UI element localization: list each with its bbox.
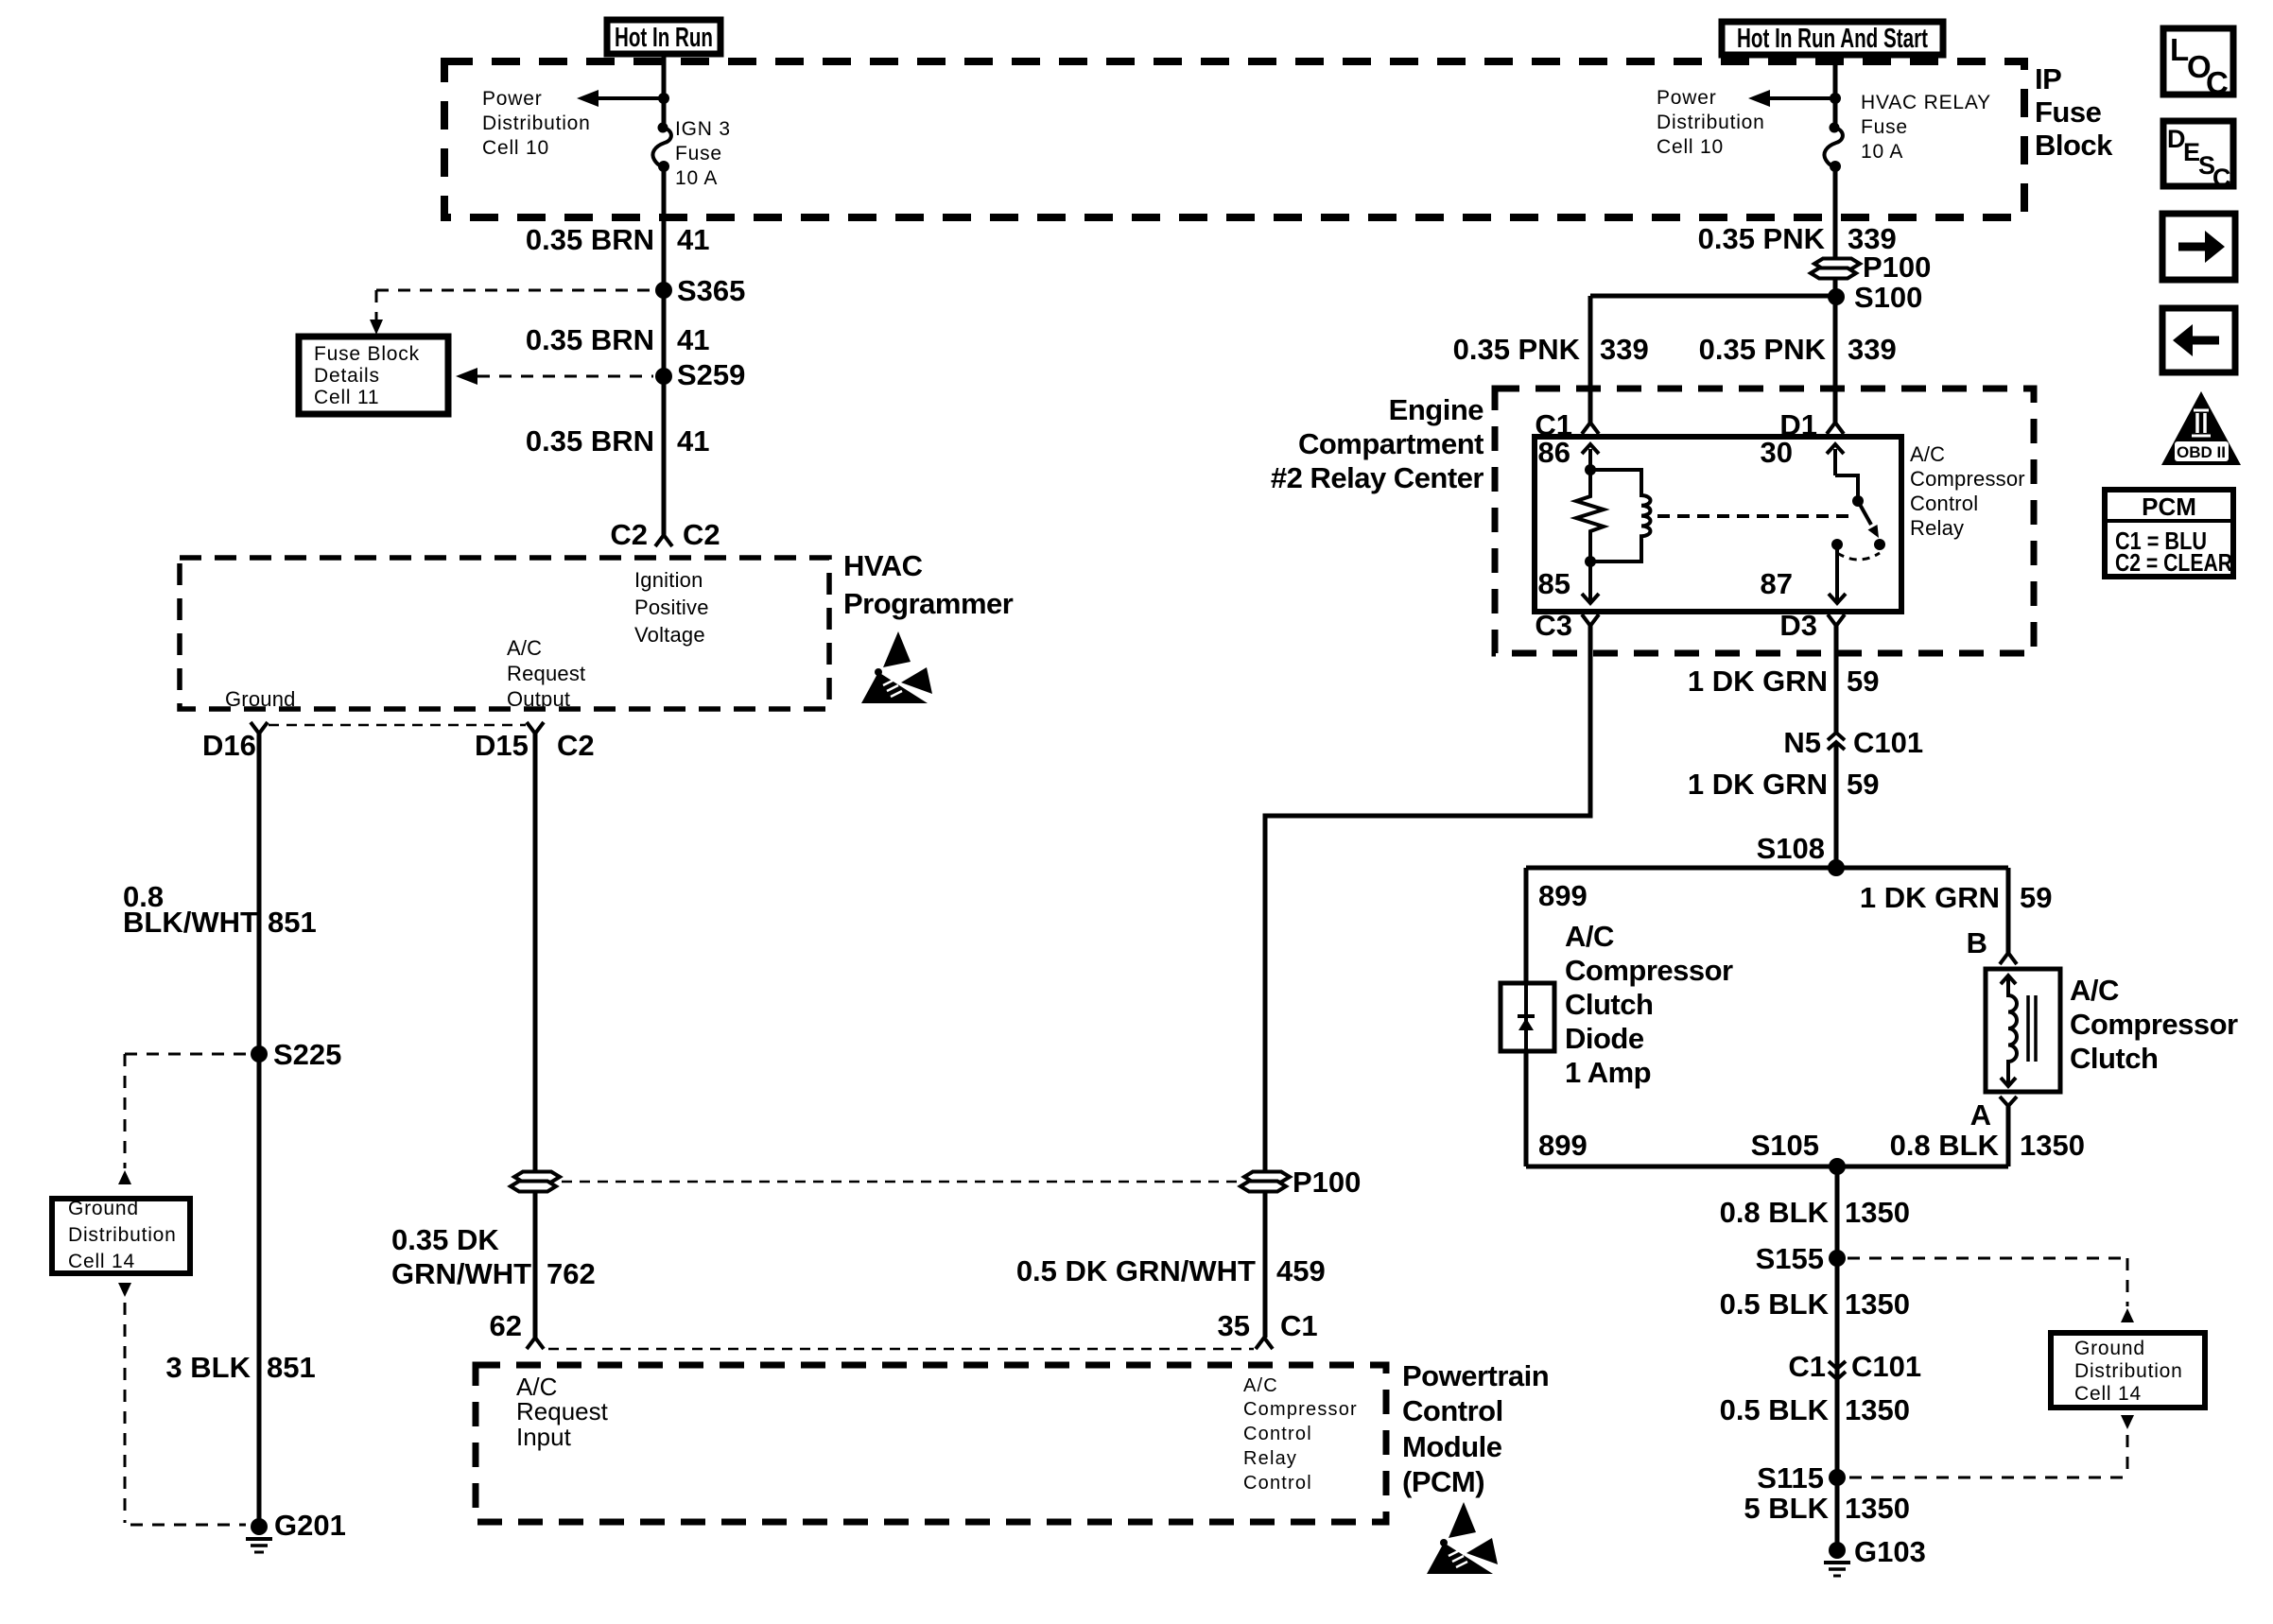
svg-text:86: 86 bbox=[1538, 436, 1570, 469]
svg-text:Diode: Diode bbox=[1565, 1022, 1644, 1055]
connector pin B at clutch bbox=[1967, 926, 2017, 964]
svg-text:Output: Output bbox=[507, 687, 570, 711]
PCM connector legend box bbox=[2105, 490, 2233, 577]
wire label 0.35 DK GRN/WHT 762 bbox=[391, 1223, 596, 1290]
connector pin D3 at relay bbox=[1779, 609, 1845, 642]
connector pin 62 at PCM bbox=[490, 1309, 544, 1349]
svg-text:Relay: Relay bbox=[1243, 1448, 1297, 1469]
svg-text:B: B bbox=[1967, 926, 1987, 959]
svg-text:Cell 14: Cell 14 bbox=[2074, 1383, 2142, 1405]
svg-text:S105: S105 bbox=[1751, 1129, 1819, 1162]
svg-text:Module: Module bbox=[1402, 1430, 1502, 1463]
dashed ground net inside HVAC box bbox=[269, 724, 526, 727]
wire: P100 to pin 35 bbox=[1263, 1192, 1268, 1338]
wire: fuse to C2 connector (0.35 BRN 41) bbox=[662, 166, 667, 535]
svg-text:Cell 10: Cell 10 bbox=[482, 137, 549, 159]
svg-text:C2: C2 bbox=[610, 518, 648, 551]
wire label 3 BLK 851 bbox=[165, 1351, 315, 1384]
wire: S108 top rail (899 circuit) bbox=[1526, 866, 2008, 871]
svg-text:1350: 1350 bbox=[1845, 1393, 1910, 1426]
wire: clutch A to S105 rail bbox=[2006, 1106, 2011, 1166]
svg-text:1350: 1350 bbox=[1845, 1287, 1910, 1321]
svg-text:C2 = CLEAR: C2 = CLEAR bbox=[2115, 548, 2232, 577]
svg-text:0.8 BLK: 0.8 BLK bbox=[1720, 1196, 1830, 1229]
wire label 0.35 PNK 339 (left pair) bbox=[1453, 333, 1649, 366]
svg-text:30: 30 bbox=[1761, 436, 1793, 469]
dashed reference from S155 to Ground Distribution (right) bbox=[1848, 1258, 2134, 1322]
svg-text:1 Amp: 1 Amp bbox=[1565, 1056, 1651, 1089]
wire label 0.8 BLK/WHT 851 bbox=[123, 880, 317, 939]
svg-text:Cell 11: Cell 11 bbox=[314, 387, 379, 408]
svg-text:A/C: A/C bbox=[1910, 442, 1945, 466]
relay pin 87 arrow bbox=[1761, 544, 1846, 603]
svg-text:62: 62 bbox=[490, 1309, 522, 1342]
svg-text:Hot In Run And Start: Hot In Run And Start bbox=[1737, 24, 1928, 54]
svg-text:Block: Block bbox=[2035, 129, 2113, 162]
svg-text:10 A: 10 A bbox=[1861, 141, 1903, 163]
svg-text:S100: S100 bbox=[1854, 281, 1922, 314]
svg-text:Voltage: Voltage bbox=[634, 623, 705, 647]
svg-text:D16: D16 bbox=[202, 729, 256, 762]
splice S115 bbox=[1757, 1461, 1846, 1494]
label: A/C Request Input bbox=[516, 1373, 609, 1451]
node label box: Hot In Run bbox=[607, 20, 720, 54]
svg-text:41: 41 bbox=[677, 424, 709, 458]
svg-text:0.5 DK GRN/WHT: 0.5 DK GRN/WHT bbox=[1016, 1254, 1256, 1287]
connector pin 35 C1 at PCM bbox=[1218, 1309, 1318, 1349]
dashed pass-through line between P100 connectors bbox=[562, 1181, 1239, 1183]
label: A/C Compressor Clutch Diode 1 Amp bbox=[1565, 920, 1733, 1089]
PCM dashed box bbox=[476, 1365, 1386, 1522]
label: A/C Compressor Control Relay Control bbox=[1243, 1375, 1358, 1494]
svg-text:339: 339 bbox=[1848, 333, 1897, 366]
svg-text:87: 87 bbox=[1761, 567, 1793, 600]
connector pin C3 at relay bbox=[1535, 609, 1599, 642]
svg-text:P100: P100 bbox=[1293, 1166, 1361, 1199]
svg-text:C101: C101 bbox=[1853, 726, 1923, 759]
wire: relay C3 to PCM pin 35 (0.5 DK GRN/WHT 459) bbox=[1265, 626, 1590, 1172]
label: Powertrain Control Module (PCM) bbox=[1402, 1359, 1549, 1498]
dashed reference from S225 to Ground Distribution bbox=[118, 1054, 249, 1184]
svg-text:Hot In Run: Hot In Run bbox=[615, 23, 713, 53]
svg-text:0.35 PNK: 0.35 PNK bbox=[1698, 222, 1826, 255]
wire label 0.5 BLK 1350 (2) bbox=[1720, 1393, 1910, 1426]
wire arrow to Power Distribution (right) bbox=[1748, 90, 1835, 107]
dashed reference from Ground Distribution to G201 bbox=[118, 1283, 246, 1525]
fuse F1 IGN 3 Fuse 10A bbox=[652, 123, 670, 173]
svg-text:1 DK GRN: 1 DK GRN bbox=[1688, 768, 1828, 801]
svg-text:Ignition: Ignition bbox=[634, 568, 703, 592]
relay actuation dashed line bbox=[1657, 514, 1851, 518]
svg-text:0.35 BRN: 0.35 BRN bbox=[526, 223, 654, 256]
svg-text:C101: C101 bbox=[1851, 1350, 1921, 1383]
wire label 0.35 PNK 339 (right pair) bbox=[1699, 333, 1897, 366]
relay internal junction (top) bbox=[1585, 464, 1596, 475]
svg-text:Compressor: Compressor bbox=[2070, 1008, 2238, 1041]
label: A/C Request Output bbox=[507, 636, 585, 711]
svg-text:1350: 1350 bbox=[1845, 1196, 1910, 1229]
svg-text:762: 762 bbox=[547, 1257, 596, 1290]
label: HVAC RELAY Fuse 10 A bbox=[1861, 92, 1991, 163]
relay resistor bbox=[1576, 470, 1604, 561]
wire: P100 to PCM pin 62 bbox=[533, 1192, 538, 1338]
svg-text:BLK/WHT: BLK/WHT bbox=[123, 906, 258, 939]
ESD sensitive symbol (HVAC Programmer) bbox=[861, 631, 932, 703]
svg-text:N5: N5 bbox=[1783, 726, 1821, 759]
svg-text:Ground: Ground bbox=[225, 687, 296, 711]
connector pin D15 / C2 (A/C Request Output) bbox=[475, 722, 595, 762]
wire label 1 DK GRN 59 (below C101) bbox=[1688, 768, 1880, 801]
svg-text:3 BLK: 3 BLK bbox=[165, 1351, 251, 1384]
clutch plates (double bar) bbox=[2028, 995, 2036, 1062]
svg-text:Control: Control bbox=[1402, 1394, 1503, 1427]
svg-text:Power: Power bbox=[1657, 87, 1717, 109]
wire label 0.5 BLK 1350 (1) bbox=[1720, 1287, 1910, 1321]
icon box arrow left bbox=[2162, 308, 2235, 372]
svg-text:10 A: 10 A bbox=[675, 167, 718, 189]
svg-text:Relay: Relay bbox=[1910, 516, 1964, 540]
reference box: Fuse Block Details Cell 11 bbox=[299, 337, 448, 414]
svg-text:1350: 1350 bbox=[1845, 1492, 1910, 1525]
svg-text:Compartment: Compartment bbox=[1298, 427, 1484, 460]
svg-text:Fuse: Fuse bbox=[1861, 116, 1908, 138]
svg-text:Fuse: Fuse bbox=[2035, 95, 2102, 129]
connector C1 C101 (lower) bbox=[1788, 1350, 1921, 1383]
svg-text:C3: C3 bbox=[1535, 609, 1572, 642]
svg-text:851: 851 bbox=[267, 1351, 316, 1384]
svg-text:0.5 BLK: 0.5 BLK bbox=[1720, 1393, 1830, 1426]
svg-text:Cell 14: Cell 14 bbox=[68, 1251, 135, 1272]
dashed reference from S259 to Fuse Block Details box bbox=[456, 368, 653, 385]
svg-text:C2: C2 bbox=[683, 518, 720, 551]
dashed reference from Ground Distribution to S115 bbox=[1849, 1415, 2134, 1477]
fuse F2 HVAC RELAY Fuse 10A bbox=[1824, 123, 1842, 173]
svg-text:Control: Control bbox=[1243, 1473, 1312, 1494]
svg-text:Control: Control bbox=[1243, 1424, 1312, 1444]
wire label 5 BLK 1350 bbox=[1744, 1492, 1910, 1525]
A/C Compressor Clutch box bbox=[1986, 969, 2060, 1092]
svg-text:C1: C1 bbox=[1280, 1309, 1318, 1342]
wire: Hot In Run feed into fuse block bbox=[662, 54, 667, 128]
relay internal junction (bottom) bbox=[1585, 556, 1596, 567]
svg-text:IGN 3: IGN 3 bbox=[675, 118, 731, 140]
svg-text:PCM: PCM bbox=[2142, 492, 2196, 521]
wire label 0.35 BRN 41 (2) bbox=[526, 323, 710, 356]
junction node at IGN3 feed bbox=[658, 93, 669, 104]
label: Engine Compartment #2 Relay Center bbox=[1271, 393, 1484, 494]
svg-text:A/C: A/C bbox=[1243, 1375, 1278, 1396]
splice S365 bbox=[655, 274, 745, 307]
svg-text:Distribution: Distribution bbox=[1657, 112, 1765, 133]
label: A/C Compressor Control Relay bbox=[1910, 442, 2025, 540]
relay U1 A/C Compressor Control Relay box bbox=[1535, 437, 1901, 612]
splice S105 on bottom rail bbox=[1526, 1129, 2008, 1175]
connector pin D16 (Ground) bbox=[202, 722, 268, 762]
reference box: Ground Distribution Cell 14 (right) bbox=[2051, 1333, 2205, 1408]
connector pin C1 at relay bbox=[1535, 408, 1599, 441]
svg-text:339: 339 bbox=[1600, 333, 1649, 366]
label: IGN 3 Fuse 10 A bbox=[675, 118, 731, 189]
svg-text:Ground: Ground bbox=[68, 1198, 139, 1219]
wire label 0.5 DK GRN/WHT 459 bbox=[1016, 1254, 1326, 1287]
wire: diode to S105 rail bbox=[1524, 1051, 1529, 1166]
inline connector P100 (left) bbox=[511, 1172, 560, 1192]
svg-text:Powertrain: Powertrain bbox=[1402, 1359, 1549, 1392]
diode D1 A/C Compressor Clutch Diode box bbox=[1501, 983, 1554, 1051]
svg-text:41: 41 bbox=[677, 223, 709, 256]
svg-text:IP: IP bbox=[2035, 62, 2061, 95]
svg-text:D3: D3 bbox=[1779, 609, 1817, 642]
svg-text:0.35 PNK: 0.35 PNK bbox=[1453, 333, 1581, 366]
svg-text:C: C bbox=[2212, 164, 2231, 192]
svg-text:(PCM): (PCM) bbox=[1402, 1465, 1484, 1498]
splice S108 bbox=[1757, 832, 1845, 876]
svg-text:S155: S155 bbox=[1756, 1242, 1824, 1275]
node label box: Hot In Run And Start bbox=[1722, 22, 1943, 55]
svg-text:Positive: Positive bbox=[634, 596, 709, 619]
dashed reference from S365 to Fuse Block Details bbox=[370, 290, 653, 335]
ESD sensitive symbol (PCM) bbox=[1427, 1502, 1498, 1574]
svg-text:0.8 BLK: 0.8 BLK bbox=[1890, 1129, 2000, 1162]
splice S225 bbox=[251, 1038, 341, 1071]
label: IP Fuse Block bbox=[2035, 62, 2113, 162]
svg-text:1350: 1350 bbox=[2020, 1129, 2085, 1162]
relay pin 30 arrow bbox=[1761, 436, 1844, 475]
svg-text:Input: Input bbox=[516, 1423, 572, 1451]
svg-text:0.35 PNK: 0.35 PNK bbox=[1699, 333, 1827, 366]
svg-text:Clutch: Clutch bbox=[1565, 988, 1653, 1021]
svg-text:851: 851 bbox=[268, 906, 317, 939]
svg-text:Fuse: Fuse bbox=[675, 143, 722, 164]
svg-text:C: C bbox=[2206, 65, 2229, 100]
splice S100 bbox=[1828, 281, 1922, 314]
svg-text:Control: Control bbox=[1910, 492, 1978, 515]
wire: D15 A/C request output 0.35 DK GRN/WHT 762 bbox=[533, 734, 538, 1172]
wire arrow to Power Distribution (left) bbox=[577, 90, 664, 107]
svg-text:GRN/WHT: GRN/WHT bbox=[391, 1257, 531, 1290]
ground G201 bbox=[246, 1509, 346, 1552]
wire: Hot In Run And Start feed bbox=[1833, 55, 1838, 128]
label: Ignition Positive Voltage bbox=[634, 568, 709, 647]
svg-text:Distribution: Distribution bbox=[482, 112, 591, 134]
icon OBD II triangle bbox=[2161, 391, 2241, 465]
relay switch bbox=[1831, 475, 1885, 560]
svg-text:D15: D15 bbox=[475, 729, 529, 762]
svg-text:459: 459 bbox=[1276, 1254, 1326, 1287]
dashed pin row line inside PCM bbox=[548, 1348, 1254, 1351]
svg-text:Programmer: Programmer bbox=[843, 587, 1014, 620]
svg-text:A: A bbox=[1970, 1098, 1991, 1132]
label: A/C Compressor Clutch bbox=[2070, 974, 2238, 1075]
svg-text:Ground: Ground bbox=[2074, 1338, 2145, 1359]
connector pin A at clutch bbox=[1970, 1097, 2017, 1132]
svg-text:A/C: A/C bbox=[1565, 920, 1614, 953]
svg-text:59: 59 bbox=[2020, 881, 2052, 914]
svg-text:5 BLK: 5 BLK bbox=[1744, 1492, 1829, 1525]
svg-text:59: 59 bbox=[1847, 768, 1879, 801]
svg-text:59: 59 bbox=[1847, 665, 1879, 698]
wire: D16 ground wire 0.8 BLK/WHT 851 bbox=[257, 734, 262, 1527]
svg-text:0.35 BRN: 0.35 BRN bbox=[526, 424, 654, 458]
splice S259 bbox=[655, 358, 745, 391]
svg-text:0.35 DK: 0.35 DK bbox=[391, 1223, 499, 1256]
svg-text:1 DK GRN: 1 DK GRN bbox=[1688, 665, 1828, 698]
wire: S100 branch to relay coil side bbox=[1590, 296, 1836, 423]
svg-text:Fuse Block: Fuse Block bbox=[314, 343, 420, 365]
svg-text:G103: G103 bbox=[1854, 1535, 1926, 1568]
svg-text:Distribution: Distribution bbox=[68, 1224, 177, 1246]
splice S155 bbox=[1756, 1242, 1846, 1275]
svg-text:1 DK GRN: 1 DK GRN bbox=[1860, 881, 2000, 914]
connector C2 at HVAC Programmer (female pin symbol) bbox=[610, 518, 720, 551]
wire label 0.35 BRN 41 (1) bbox=[526, 223, 710, 256]
relay pin 86 arrow bbox=[1538, 436, 1599, 470]
connector N5 C101 bbox=[1783, 726, 1923, 759]
wire: C101 to S108 bbox=[1834, 742, 1839, 868]
wire: S100 down to relay switch side bbox=[1833, 278, 1838, 423]
svg-text:Cell 10: Cell 10 bbox=[1657, 136, 1724, 158]
wire: S108 left leg to diode bbox=[1524, 868, 1529, 983]
svg-text:A/C: A/C bbox=[2070, 974, 2119, 1007]
svg-text:#2 Relay Center: #2 Relay Center bbox=[1271, 461, 1484, 494]
wire: fuse to P100 (0.35 PNK 339) bbox=[1833, 166, 1838, 259]
icon box LOC bbox=[2163, 28, 2233, 100]
svg-text:HVAC: HVAC bbox=[843, 549, 923, 582]
svg-text:OBD II: OBD II bbox=[2177, 443, 2226, 461]
label: Power Distribution Cell 10 (left) bbox=[482, 88, 591, 159]
svg-text:S365: S365 bbox=[677, 274, 745, 307]
wire label 0.8 BLK 1350 (clutch A) bbox=[1890, 1129, 2085, 1162]
svg-text:Request: Request bbox=[507, 662, 585, 685]
wire label 0.35 BRN 41 (3) bbox=[526, 424, 710, 458]
svg-text:Compressor: Compressor bbox=[1565, 954, 1733, 987]
icon box DESC bbox=[2163, 121, 2233, 192]
svg-text:35: 35 bbox=[1218, 1309, 1250, 1342]
svg-text:G201: G201 bbox=[274, 1509, 346, 1542]
svg-text:Clutch: Clutch bbox=[2070, 1042, 2158, 1075]
icon box arrow right bbox=[2162, 214, 2235, 280]
connector pin D1 at relay bbox=[1779, 408, 1844, 441]
ground G103 bbox=[1824, 1535, 1926, 1576]
wire label 1 DK GRN 59 (clutch B) bbox=[1860, 881, 2053, 914]
relay pin 85 arrow bbox=[1538, 561, 1599, 603]
wire: S105 to G103 bbox=[1835, 1166, 1840, 1550]
reference box: Ground Distribution Cell 14 (left) bbox=[52, 1198, 190, 1273]
svg-text:0.5 BLK: 0.5 BLK bbox=[1720, 1287, 1830, 1321]
wire label 0.35 PNK 339 (top) bbox=[1698, 222, 1897, 255]
svg-text:0.35 BRN: 0.35 BRN bbox=[526, 323, 654, 356]
label: Power Distribution Cell 10 (right) bbox=[1657, 87, 1765, 158]
inline connector P100 (right) bbox=[1241, 1166, 1361, 1199]
svg-text:Details: Details bbox=[314, 365, 380, 387]
wire: relay D3 to S108 (1 DK GRN 59) bbox=[1834, 626, 1839, 733]
svg-text:899: 899 bbox=[1538, 1129, 1588, 1162]
wire label 0.8 BLK 1350 bbox=[1720, 1196, 1910, 1229]
svg-text:HVAC RELAY: HVAC RELAY bbox=[1861, 92, 1991, 113]
svg-text:S108: S108 bbox=[1757, 832, 1825, 865]
clutch coil with arrows bbox=[2001, 976, 2017, 1086]
HVAC Programmer dashed box bbox=[180, 558, 829, 709]
svg-text:C1: C1 bbox=[1788, 1350, 1826, 1383]
svg-text:A/C: A/C bbox=[507, 636, 542, 660]
label: HVAC Programmer bbox=[843, 549, 1014, 620]
svg-text:S225: S225 bbox=[273, 1038, 341, 1071]
svg-text:85: 85 bbox=[1538, 567, 1570, 600]
Engine Compartment #2 Relay Center dashed box bbox=[1495, 389, 2034, 653]
svg-text:41: 41 bbox=[677, 323, 709, 356]
svg-text:Compressor: Compressor bbox=[1910, 467, 2025, 491]
svg-text:Engine: Engine bbox=[1389, 393, 1484, 426]
svg-text:899: 899 bbox=[1538, 879, 1588, 912]
svg-text:P100: P100 bbox=[1863, 251, 1931, 284]
wire: down to clutch B bbox=[2006, 868, 2011, 953]
inline connector P100 (top) bbox=[1811, 251, 1931, 284]
svg-text:Compressor: Compressor bbox=[1243, 1399, 1358, 1420]
relay coil bbox=[1590, 470, 1651, 561]
svg-text:Request: Request bbox=[516, 1397, 609, 1425]
svg-text:Power: Power bbox=[482, 88, 543, 110]
svg-text:S259: S259 bbox=[677, 358, 745, 391]
svg-text:Distribution: Distribution bbox=[2074, 1360, 2183, 1382]
junction node at HVAC RELAY feed bbox=[1830, 93, 1841, 104]
IP Fuse Block dashed box bbox=[444, 61, 2024, 217]
svg-text:C2: C2 bbox=[557, 729, 595, 762]
wire label 1 DK GRN 59 (above C101) bbox=[1688, 665, 1880, 698]
svg-text:S115: S115 bbox=[1757, 1461, 1824, 1494]
